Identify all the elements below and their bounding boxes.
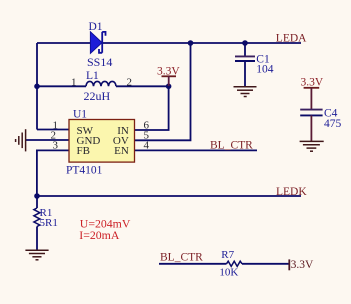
- wire LEDK net: [37, 195, 301, 197]
- svg-text:1: 1: [71, 77, 77, 89]
- node junction LEDK FB: [34, 193, 40, 199]
- wire R1 top: [36, 196, 38, 208]
- wire pin6 to node: [135, 86, 169, 130]
- node junction pin5 top: [188, 40, 194, 46]
- inductor L1: [71, 70, 132, 103]
- wire top LEDA net: [37, 42, 301, 44]
- node junction C1 top: [242, 40, 248, 46]
- ground at C1: [234, 87, 257, 97]
- ground at pin2: [16, 129, 26, 151]
- wire pin4 BL_CTR: [135, 149, 258, 151]
- capacitor C4: [300, 107, 341, 141]
- resistor R7: [219, 249, 242, 279]
- svg-text:PT4101: PT4101: [66, 165, 103, 177]
- svg-text:LEDK: LEDK: [276, 186, 307, 198]
- svg-text:D1: D1: [89, 21, 103, 33]
- capacitor C1: [235, 53, 274, 75]
- power 3.3V at L1 node: [157, 65, 180, 86]
- svg-text:4: 4: [144, 140, 150, 152]
- svg-text:10K: 10K: [219, 267, 238, 279]
- svg-text:R7: R7: [221, 249, 234, 261]
- wire pin3: [37, 150, 69, 196]
- wire L1 right to node: [116, 85, 169, 87]
- op-amp U1 PT4101 body: [66, 108, 135, 176]
- svg-text:EN: EN: [114, 145, 129, 157]
- svg-text:U1: U1: [73, 108, 87, 120]
- svg-text:3.3V: 3.3V: [301, 77, 324, 89]
- power 3.3V right of R7: [289, 259, 314, 271]
- svg-text:104: 104: [256, 64, 274, 76]
- ground at R1: [25, 250, 48, 260]
- wire pin5 up to top: [135, 43, 191, 140]
- svg-text:2: 2: [127, 77, 133, 89]
- svg-text:SS14: SS14: [87, 55, 112, 69]
- svg-text:BL_CTR: BL_CTR: [210, 139, 253, 151]
- pin names U1: [77, 125, 129, 157]
- pin numbers U1: [51, 120, 150, 152]
- wire pin1: [37, 129, 69, 131]
- node junction 3.3V pin6: [166, 84, 172, 90]
- node junction L1 left: [34, 84, 40, 90]
- ground at C4: [300, 141, 324, 151]
- diode D1: [87, 21, 112, 69]
- power 3.3V at C4: [301, 77, 324, 109]
- wire L1 row: [37, 85, 86, 87]
- svg-text:LEDA: LEDA: [276, 33, 307, 45]
- svg-text:BL_CTR: BL_CTR: [160, 251, 203, 263]
- resistor R1: [34, 207, 58, 229]
- svg-text:475: 475: [324, 118, 342, 130]
- wire BL_CTR bottom: [159, 263, 289, 265]
- wire C1 stem: [244, 43, 246, 87]
- svg-text:FB: FB: [77, 145, 90, 157]
- svg-text:3.3V: 3.3V: [291, 259, 314, 271]
- svg-text:5R1: 5R1: [40, 217, 58, 229]
- wire pin2 to ground: [26, 139, 69, 141]
- svg-text:3.3V: 3.3V: [157, 65, 180, 77]
- svg-text:22uH: 22uH: [84, 89, 111, 103]
- wire R1 bottom: [36, 227, 38, 251]
- svg-text:3: 3: [53, 140, 59, 152]
- svg-text:I=20mA: I=20mA: [79, 228, 120, 242]
- wire left vertical: [36, 43, 38, 130]
- svg-text:L1: L1: [86, 70, 99, 82]
